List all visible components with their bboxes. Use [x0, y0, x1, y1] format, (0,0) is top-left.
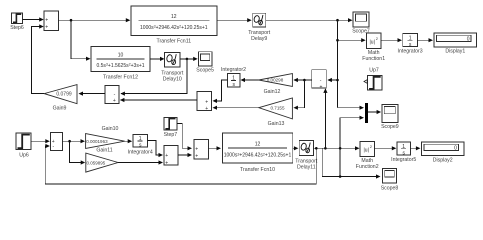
- wire bus B up to Mux bottom input: [340, 116, 364, 177]
- svg-text:10: 10: [118, 53, 124, 59]
- wire SumD output to TF10: [209, 146, 221, 150]
- wire branch down to Scope8: [322, 148, 380, 178]
- wire Gain12 output to Integrator2 input: [241, 78, 259, 82]
- wire junction down to Gain11: [70, 141, 86, 164]
- node junction on TD10 output: [186, 58, 189, 61]
- transport delay TD11: [295, 141, 318, 171]
- svg-text:Scope5: Scope5: [196, 68, 214, 74]
- svg-text:Delay10: Delay10: [163, 77, 182, 83]
- svg-text:0.0799: 0.0799: [56, 91, 72, 97]
- svg-text:Function1: Function1: [362, 56, 385, 62]
- wire TD10 to Scope5: [180, 57, 198, 61]
- svg-text:0.00298: 0.00298: [267, 78, 284, 83]
- transfer function TF11: [131, 6, 217, 45]
- wire Mux to Scope9: [368, 110, 381, 114]
- wire SumB output to Gain10: [63, 139, 85, 143]
- math function U1 Math Function1: [362, 33, 385, 62]
- svg-text:|u|: |u|: [364, 148, 369, 154]
- svg-text:Delay9: Delay9: [251, 36, 267, 42]
- svg-text:+: +: [45, 25, 48, 31]
- sum block Sum1a: [44, 11, 59, 31]
- step source Step7: [164, 117, 178, 138]
- gain Gain12: [259, 74, 293, 95]
- svg-text:Gain13: Gain13: [268, 121, 285, 127]
- wire Step6 to Sum1a: [23, 17, 44, 21]
- wire TF12 to Transport Delay10: [150, 57, 165, 61]
- svg-text:+: +: [195, 153, 198, 159]
- svg-text:12: 12: [255, 141, 261, 147]
- wire TF10 to Transport Delay11: [293, 146, 299, 150]
- svg-text:Gain11: Gain11: [96, 148, 112, 154]
- svg-text:Transfer Fcn12: Transfer Fcn12: [103, 75, 138, 81]
- svg-text:Gain10: Gain10: [102, 126, 119, 132]
- transfer function TF12: [91, 46, 150, 80]
- wire riser to Sum3 plus input: [323, 88, 327, 148]
- wire bus A to Sum3 minus input: [327, 78, 337, 82]
- svg-text:0: 0: [454, 146, 457, 152]
- sum block SumC: [164, 146, 178, 167]
- node junction on Sum3 output: [303, 79, 306, 82]
- svg-text:Delay11: Delay11: [297, 165, 316, 171]
- svg-text:Step7: Step7: [164, 132, 178, 138]
- wire TD9 to Scope7: [266, 18, 353, 22]
- mux Mux1: [365, 103, 368, 123]
- svg-text:+: +: [45, 18, 48, 24]
- svg-text:+: +: [165, 153, 168, 159]
- svg-text:0.059895: 0.059895: [87, 160, 106, 165]
- svg-text:+: +: [113, 98, 116, 104]
- svg-text:12: 12: [171, 14, 177, 20]
- gain Gain11: [86, 148, 118, 173]
- svg-text:Function2: Function2: [356, 164, 379, 170]
- svg-text:|u|: |u|: [370, 39, 375, 45]
- display Display1: [434, 33, 477, 54]
- wire bus A to Math Function1: [338, 38, 366, 42]
- svg-text:Display2: Display2: [433, 157, 453, 163]
- svg-text:Scope8: Scope8: [381, 186, 399, 192]
- wire Gain13 output to Sum2 bottom input: [213, 106, 259, 110]
- svg-text:+: +: [195, 146, 198, 152]
- gain Gain9: [44, 85, 77, 112]
- svg-text:Gain12: Gain12: [264, 89, 281, 95]
- svg-text:Display1: Display1: [445, 49, 465, 55]
- node junction after Sum1a: [70, 19, 73, 22]
- svg-text:+: +: [205, 99, 208, 105]
- node junction bus A at Math Function1 branch: [336, 39, 339, 42]
- scope Scope7: [352, 12, 370, 35]
- wire Gain10 to Integrator4: [125, 139, 133, 143]
- display Display2: [421, 142, 464, 163]
- wire TD10 junction down to Sum1 minus input: [120, 59, 186, 96]
- step source Up7 (flipped, unconnected): [364, 68, 382, 91]
- wire Integrator4 down to SumC top input: [147, 141, 163, 158]
- svg-text:0.7155: 0.7155: [270, 105, 284, 110]
- wire Integrator3 to Display1: [417, 38, 433, 42]
- wire Math Function2 to Integrator5: [375, 146, 397, 150]
- wire SumC output to SumD bottom input: [178, 153, 192, 157]
- wire bus A vertical: [337, 20, 339, 108]
- svg-text:Integrator4: Integrator4: [128, 150, 153, 156]
- svg-text:0.0001963: 0.0001963: [86, 139, 108, 144]
- wire Gain9 feedback to Sum1a: [32, 24, 45, 93]
- svg-text:Gain9: Gain9: [53, 106, 67, 112]
- step source Up6: [16, 133, 31, 158]
- svg-text:Integrator5: Integrator5: [391, 157, 416, 163]
- node junction on SumB output: [68, 140, 71, 143]
- svg-text:Up6: Up6: [19, 153, 29, 159]
- svg-text:1000s3+2946.42s2+120.25s+1: 1000s3+2946.42s2+120.25s+1: [224, 152, 292, 158]
- svg-text:Integrator2: Integrator2: [221, 67, 246, 73]
- svg-text:+: +: [165, 160, 168, 166]
- transport delay TD10: [161, 52, 184, 82]
- svg-text:Integrator3: Integrator3: [398, 49, 423, 55]
- node junction TD11 output mux branch: [339, 147, 342, 150]
- svg-text:0: 0: [467, 37, 470, 43]
- sum block Sum1: [105, 86, 119, 105]
- node junction bus A at Sum3 branch: [336, 79, 339, 82]
- sum block Sum2: [197, 91, 212, 112]
- wire Integrator2 output down to Sum2 top input: [213, 80, 228, 103]
- wire Sum1a output to Transfer Fcn11: [59, 18, 131, 22]
- integrator Integrator3: [398, 33, 423, 54]
- svg-text:Step6: Step6: [10, 25, 24, 31]
- math function U2 Math Function2: [356, 142, 379, 171]
- step source Step6: [10, 13, 24, 31]
- wire Sum2 output to Sum1 plus input: [120, 98, 197, 102]
- svg-text:Scope9: Scope9: [381, 124, 399, 130]
- wire junction down to Gain13 input: [293, 80, 304, 110]
- gain Gain10: [86, 126, 125, 149]
- node junction on TD9 output: [336, 19, 339, 22]
- node junction TD11 output Sum3 branch: [324, 147, 327, 150]
- wire Up6 to SumB: [31, 139, 50, 143]
- wire Sum1 output to Gain9: [79, 92, 106, 96]
- scope Scope9: [381, 104, 399, 130]
- wire long feedback to SumB: [45, 144, 316, 184]
- sum block SumB: [51, 132, 63, 150]
- wire TD11 output to Math Function2: [314, 146, 360, 150]
- integrator Integrator4: [128, 134, 153, 155]
- gain Gain13: [259, 98, 293, 127]
- svg-text:0.5s3+1.5625s2+3s+1: 0.5s3+1.5625s2+3s+1: [96, 63, 144, 69]
- sum block SumD: [194, 139, 209, 159]
- scope Scope8: [381, 168, 399, 191]
- svg-text:Transfer Fcn10: Transfer Fcn10: [240, 167, 275, 173]
- sum block Sum3: [312, 70, 327, 91]
- svg-text:Transfer Fcn11: Transfer Fcn11: [156, 39, 191, 45]
- svg-text:1000s3+2946.42s2+120.25s+1: 1000s3+2946.42s2+120.25s+1: [140, 25, 208, 31]
- wire Math Function1 to Integrator3: [381, 38, 402, 42]
- scope Scope5: [196, 52, 214, 74]
- integrator Integrator5: [391, 142, 416, 163]
- node junction on Scope8 wire: [339, 175, 342, 178]
- integrator Integrator2 (flipped): [221, 67, 246, 88]
- svg-text:Up7: Up7: [369, 68, 379, 74]
- wire Step7 down to SumD top input: [177, 124, 192, 151]
- svg-text:+: +: [205, 106, 208, 112]
- wire Gain11 to SumC bottom input: [118, 160, 163, 164]
- node junction TD11 output feedback branch: [315, 147, 318, 150]
- wire TF11 to Transport Delay9: [217, 18, 252, 22]
- svg-text:+: +: [320, 84, 323, 90]
- wire bus A bottom to Mux top input: [338, 106, 365, 110]
- transport delay TD9: [248, 13, 271, 42]
- transfer function TF10: [222, 133, 292, 173]
- wire Sum3 output to Gain12 input: [293, 78, 311, 82]
- wire Integrator5 to Display2: [410, 146, 420, 150]
- wire junction down to Transfer Fcn12: [71, 20, 91, 61]
